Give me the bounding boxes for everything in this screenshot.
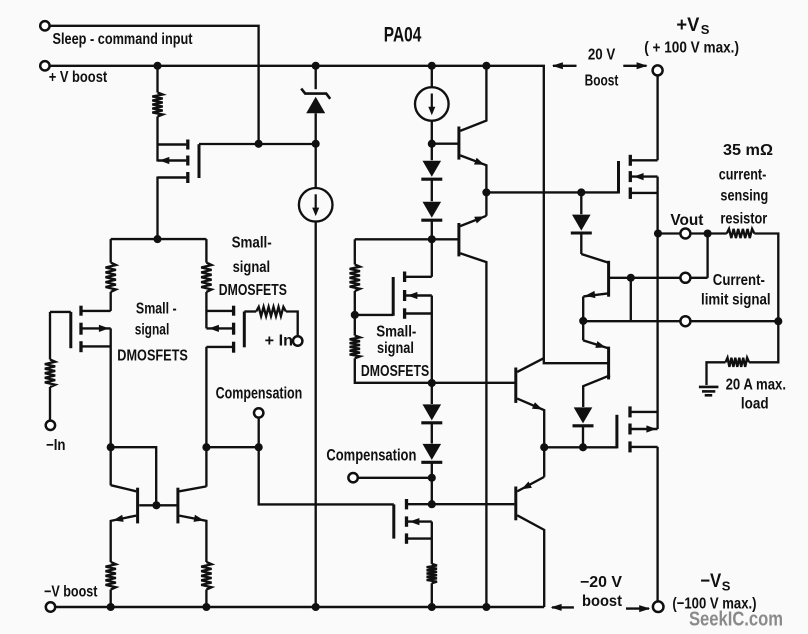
svg-text:boost: boost xyxy=(582,593,622,610)
svg-text:20 A max.: 20 A max. xyxy=(726,376,786,393)
svg-text:sensing: sensing xyxy=(720,188,768,205)
svg-text:S: S xyxy=(701,22,710,37)
svg-text:−V boost: −V boost xyxy=(44,584,98,601)
svg-text:resistor: resistor xyxy=(720,210,767,227)
svg-text:+ V boost: + V boost xyxy=(49,69,107,86)
svg-text:Compensation: Compensation xyxy=(326,445,416,464)
svg-text:DMOSFETS: DMOSFETS xyxy=(219,282,287,299)
svg-text:Small-: Small- xyxy=(232,235,272,252)
svg-text:−V: −V xyxy=(700,571,721,592)
svg-text:35 mΩ: 35 mΩ xyxy=(723,142,773,159)
svg-text:PA04: PA04 xyxy=(384,23,422,46)
svg-text:signal: signal xyxy=(135,321,170,338)
svg-text:DMOSFETS: DMOSFETS xyxy=(117,347,188,364)
svg-text:Vout: Vout xyxy=(670,212,704,229)
svg-text:S: S xyxy=(722,579,731,594)
svg-text:Small-: Small- xyxy=(376,323,416,340)
svg-text:Current-: Current- xyxy=(713,272,765,289)
svg-text:+V: +V xyxy=(676,15,699,36)
svg-text:Compensation: Compensation xyxy=(216,384,303,403)
svg-text:DMOSFETS: DMOSFETS xyxy=(361,363,429,380)
svg-text:+ In: + In xyxy=(265,333,293,350)
svg-text:Sleep - command input: Sleep - command input xyxy=(53,31,193,48)
svg-text:limit signal: limit signal xyxy=(701,292,771,309)
svg-text:Boost: Boost xyxy=(585,72,619,89)
svg-text:−20 V: −20 V xyxy=(580,574,623,591)
svg-text:−In: −In xyxy=(46,437,66,454)
svg-text:( + 100 V max.): ( + 100 V max.) xyxy=(644,40,739,57)
svg-text:current-: current- xyxy=(719,167,767,184)
svg-text:20 V: 20 V xyxy=(588,47,616,64)
svg-text:signal: signal xyxy=(233,259,271,276)
svg-text:load: load xyxy=(741,396,769,413)
svg-text:signal: signal xyxy=(377,340,414,357)
svg-text:Small -: Small - xyxy=(136,300,177,317)
svg-text:SeekIC.com: SeekIC.com xyxy=(689,609,783,631)
